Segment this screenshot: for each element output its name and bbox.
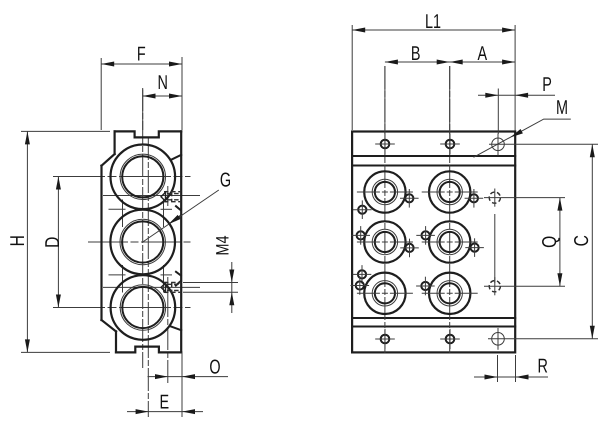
svg-text:L1: L1 [425,11,441,33]
svg-text:B: B [411,43,421,65]
svg-text:D: D [42,237,64,248]
svg-text:O: O [209,356,220,378]
svg-text:F: F [137,43,146,65]
svg-text:P: P [542,74,552,96]
svg-text:H: H [7,235,29,246]
svg-text:M4: M4 [212,235,232,255]
svg-text:N: N [157,72,167,94]
svg-text:G: G [220,169,231,191]
svg-text:E: E [159,392,169,414]
svg-text:M: M [556,97,568,119]
svg-text:A: A [477,43,487,65]
svg-text:Q: Q [539,236,561,248]
svg-text:C: C [571,235,593,246]
svg-text:R: R [537,356,547,378]
